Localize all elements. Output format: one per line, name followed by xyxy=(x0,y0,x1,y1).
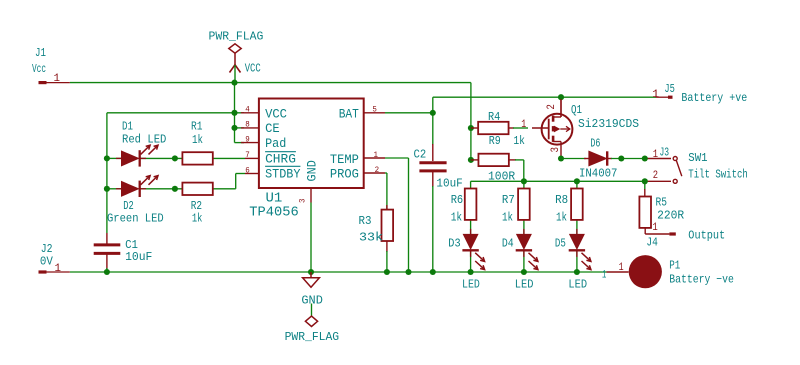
svg-text:TP4056: TP4056 xyxy=(249,205,298,221)
svg-text:Battery +ve: Battery +ve xyxy=(681,91,747,105)
svg-text:CHRG: CHRG xyxy=(265,153,296,167)
switch SW1 blade xyxy=(676,161,681,177)
diode D5 xyxy=(570,234,584,249)
wire R6 to D3 xyxy=(470,220,472,234)
diode D4 xyxy=(517,234,531,249)
svg-text:1: 1 xyxy=(602,269,607,281)
svg-text:1k: 1k xyxy=(502,211,513,225)
svg-text:9: 9 xyxy=(245,135,250,144)
LED arrows D1 xyxy=(141,145,151,154)
junction R7 rail xyxy=(521,178,527,184)
svg-text:Vcc: Vcc xyxy=(32,62,46,76)
resistor R8 xyxy=(571,189,583,220)
svg-text:IN4007: IN4007 xyxy=(579,166,617,180)
svg-text:7: 7 xyxy=(245,151,250,160)
connector J3 pin2 circle xyxy=(673,179,677,183)
svg-text:Si2319CDS: Si2319CDS xyxy=(578,117,639,131)
wire R8 to D5 xyxy=(576,220,578,234)
wire C2 column bottom xyxy=(432,172,434,187)
svg-text:J1: J1 xyxy=(35,46,46,60)
svg-text:R1: R1 xyxy=(191,120,203,134)
svg-text:100R: 100R xyxy=(488,170,515,184)
junction D5 rail xyxy=(574,269,580,275)
svg-text:1: 1 xyxy=(619,262,624,274)
wire C2 column top xyxy=(432,97,434,145)
svg-text:VCC: VCC xyxy=(245,62,261,76)
svg-text:Output: Output xyxy=(688,229,725,243)
capacitor C1 xyxy=(94,243,121,246)
svg-text:10uF: 10uF xyxy=(436,176,462,190)
wire left vertical xyxy=(106,113,108,233)
svg-text:SW1: SW1 xyxy=(688,151,707,165)
svg-text:33k: 33k xyxy=(359,231,383,245)
svg-text:1: 1 xyxy=(652,89,659,101)
wire Vcc top rail xyxy=(70,82,471,84)
wire D1 cathode to R1 xyxy=(140,157,183,159)
svg-text:Red LED: Red LED xyxy=(122,133,166,147)
resistor R5 xyxy=(639,197,651,228)
svg-text:10uF: 10uF xyxy=(125,250,152,264)
op-amp U1 body xyxy=(259,99,364,189)
junction J3 pin1 xyxy=(642,155,648,161)
pin 1 lead xyxy=(364,157,385,159)
svg-text:5: 5 xyxy=(372,106,377,115)
svg-text:J5: J5 xyxy=(664,82,675,96)
svg-text:2: 2 xyxy=(546,104,558,110)
junction R4 left xyxy=(468,125,474,131)
junction D3 rail xyxy=(468,269,474,275)
svg-text:1: 1 xyxy=(652,222,658,234)
svg-text:Tilt Switch: Tilt Switch xyxy=(688,168,748,182)
LED arrows D5 xyxy=(582,253,591,262)
junction D4 rail xyxy=(521,269,527,275)
svg-text:J3: J3 xyxy=(660,146,670,160)
resistor R3 xyxy=(382,210,394,241)
svg-text:R7: R7 xyxy=(502,193,515,207)
junction VCC rail xyxy=(231,80,237,86)
wire R3 bottom xyxy=(386,240,388,252)
wire Q1 to D6 xyxy=(561,158,586,160)
resistor R4 xyxy=(478,122,508,134)
svg-text:PWR_FLAG: PWR_FLAG xyxy=(285,330,340,344)
wire J3 pin2 xyxy=(645,180,671,182)
svg-text:1: 1 xyxy=(54,73,61,85)
wire Q1 drain xyxy=(560,97,562,117)
svg-text:1k: 1k xyxy=(513,134,525,148)
wire U1 GND pin xyxy=(310,188,312,203)
power flag top diamond xyxy=(229,44,241,53)
svg-text:BAT: BAT xyxy=(339,108,360,122)
junction R1 left xyxy=(172,155,178,161)
wire VCC drop to U1 pins xyxy=(234,83,236,143)
junction Q1 drain xyxy=(558,94,564,100)
svg-text:220R: 220R xyxy=(657,209,684,223)
wire C1 bottom lead xyxy=(106,254,108,269)
wire rail to R5 xyxy=(644,181,646,190)
junction GND rail xyxy=(308,269,314,275)
svg-text:1: 1 xyxy=(374,151,379,160)
wire R1 to pin7 xyxy=(213,157,245,159)
wire battery +ve row xyxy=(433,96,656,98)
svg-text:1: 1 xyxy=(55,263,62,275)
wire pin4 feed xyxy=(107,112,244,114)
wire R8 top lead xyxy=(576,181,578,188)
wire D1 anode xyxy=(107,157,122,159)
svg-text:4: 4 xyxy=(245,106,250,115)
connector J3 pin1 circle xyxy=(673,157,677,161)
wire BAT to C2 xyxy=(385,112,433,114)
wire D4 to rail xyxy=(523,251,525,273)
wire LED rail to R6 xyxy=(470,181,472,188)
LED arrows D3 xyxy=(475,253,484,262)
diode D1 xyxy=(122,151,139,166)
junction R9 left xyxy=(468,157,474,163)
svg-text:2: 2 xyxy=(653,170,658,182)
svg-text:Green LED: Green LED xyxy=(107,212,164,226)
svg-text:6: 6 xyxy=(245,166,250,175)
wire Q1 source xyxy=(560,142,562,159)
svg-text:2: 2 xyxy=(375,166,380,175)
svg-text:0V: 0V xyxy=(40,255,54,269)
svg-text:R5: R5 xyxy=(656,195,668,209)
svg-text:LED: LED xyxy=(462,278,480,292)
connector J1 xyxy=(39,81,47,84)
LED arrows D4 xyxy=(529,253,538,262)
svg-text:Pad: Pad xyxy=(265,137,286,151)
svg-text:Battery −ve: Battery −ve xyxy=(669,272,734,286)
junction J3 pin2 rail xyxy=(642,178,648,184)
svg-text:GND: GND xyxy=(305,160,319,181)
diode D2 xyxy=(122,182,139,197)
resistor R6 xyxy=(465,189,477,220)
wire R2 to pin6 xyxy=(213,188,236,190)
svg-text:R3: R3 xyxy=(359,214,372,228)
LED arrows D2 xyxy=(141,176,151,185)
svg-text:STDBY: STDBY xyxy=(265,168,301,182)
wire R7 top lead xyxy=(523,181,525,189)
wire PROG to R3 xyxy=(385,172,387,174)
svg-text:D4: D4 xyxy=(502,237,514,251)
wire pin8 stub xyxy=(235,127,245,129)
pin 5 lead xyxy=(364,112,385,114)
svg-text:TEMP: TEMP xyxy=(330,153,359,167)
connector J5 xyxy=(656,96,668,98)
connector P1 xyxy=(629,255,662,288)
resistor R7 xyxy=(518,189,530,220)
transistor Q1 xyxy=(542,114,573,145)
pin 4 lead xyxy=(241,112,259,114)
svg-text:LED: LED xyxy=(515,278,534,292)
junction D2 anode xyxy=(104,186,110,192)
wire D3 to rail xyxy=(470,251,472,273)
wire 0V bottom rail xyxy=(70,271,607,273)
wire D2 anode xyxy=(107,188,122,190)
svg-text:D1: D1 xyxy=(122,120,133,134)
svg-text:3: 3 xyxy=(550,147,562,153)
svg-text:1k: 1k xyxy=(192,133,203,147)
junction D6 cathode xyxy=(618,155,624,161)
wire D6 to J3 xyxy=(608,158,612,160)
power symbol VCC arrow xyxy=(230,65,241,73)
svg-text:Q1: Q1 xyxy=(571,103,582,117)
svg-text:1k: 1k xyxy=(192,212,203,226)
svg-text:R8: R8 xyxy=(555,193,568,207)
junction BAT C2 xyxy=(430,110,436,116)
svg-text:1k: 1k xyxy=(556,211,567,225)
wire R5 to J4 xyxy=(644,228,646,234)
svg-text:1: 1 xyxy=(521,119,526,131)
svg-text:PROG: PROG xyxy=(330,168,359,182)
wire R7 to D4 xyxy=(523,220,525,234)
svg-text:D3: D3 xyxy=(448,237,460,251)
svg-text:1: 1 xyxy=(653,149,659,161)
wire D2 cathode to R2 xyxy=(140,188,183,190)
connector J2 xyxy=(39,270,47,273)
svg-text:VCC: VCC xyxy=(265,108,287,122)
junction pin8 xyxy=(231,125,237,131)
wire P1 pin xyxy=(607,271,629,273)
junction C1 0V xyxy=(104,269,110,275)
svg-text:J4: J4 xyxy=(646,236,658,250)
resistor R1 xyxy=(182,152,212,164)
svg-text:CE: CE xyxy=(265,122,280,136)
pin 9 lead xyxy=(241,142,259,144)
resistor R9 xyxy=(478,154,508,166)
junction C2 rail xyxy=(430,269,436,275)
diode D3 xyxy=(463,234,477,249)
svg-text:R4: R4 xyxy=(488,110,500,124)
junction R2 left xyxy=(172,186,178,192)
junction D1 anode xyxy=(104,155,110,161)
ground symbol xyxy=(310,272,312,278)
diode D6 xyxy=(589,151,607,165)
svg-text:C2: C2 xyxy=(414,148,427,162)
svg-text:3: 3 xyxy=(299,198,308,203)
svg-text:PWR_FLAG: PWR_FLAG xyxy=(209,30,264,44)
power flag bottom xyxy=(311,304,313,317)
junction TEMP rail xyxy=(405,269,411,275)
junction R8 rail xyxy=(574,178,580,184)
junction Q1 source xyxy=(558,155,564,161)
pin 8 lead xyxy=(241,127,259,129)
wire rail drop to R4 R9 xyxy=(470,83,472,160)
svg-text:1k: 1k xyxy=(451,211,462,225)
svg-text:P1: P1 xyxy=(669,258,680,272)
svg-text:D5: D5 xyxy=(555,237,566,251)
wire LED rail xyxy=(471,180,645,182)
wire TEMP to ground xyxy=(385,157,409,159)
pin 2 lead xyxy=(364,172,385,174)
resistor R2 xyxy=(182,183,212,195)
wire R9 right xyxy=(509,159,517,161)
svg-text:LED: LED xyxy=(568,278,587,292)
svg-text:R9: R9 xyxy=(489,134,501,148)
connector J4 xyxy=(669,232,675,235)
svg-text:8: 8 xyxy=(245,121,250,130)
svg-text:D6: D6 xyxy=(590,137,600,151)
wire C1 top lead xyxy=(106,233,108,244)
capacitor C2 xyxy=(419,161,446,164)
svg-text:R6: R6 xyxy=(451,193,464,207)
junction pin4 xyxy=(231,110,237,116)
junction R3 rail xyxy=(384,269,390,275)
wire D5 to rail xyxy=(576,251,578,273)
